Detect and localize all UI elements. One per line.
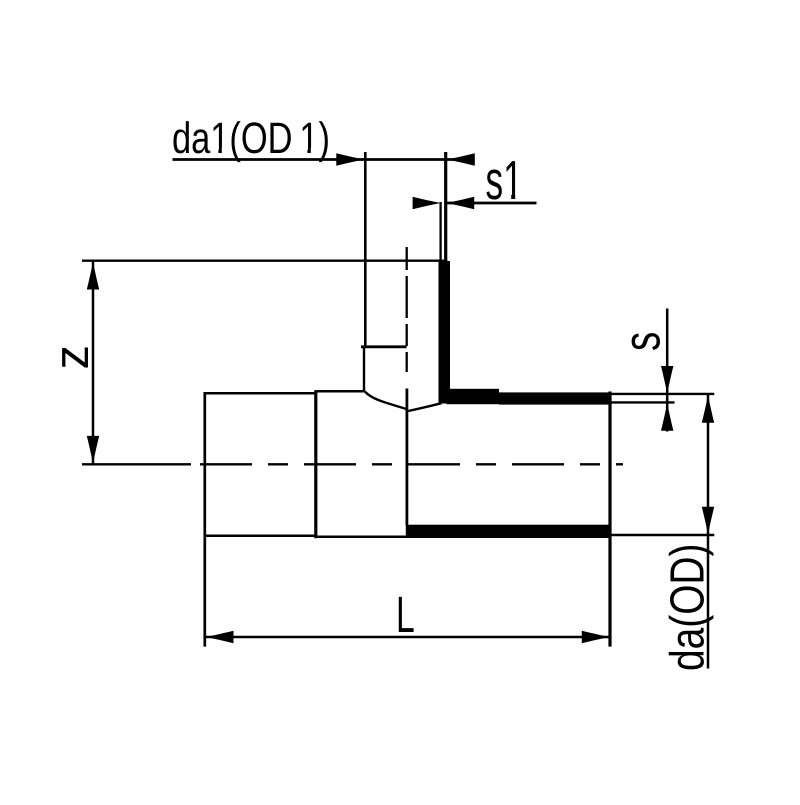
s dimension line (666, 309, 669, 432)
L dimension line (205, 636, 610, 639)
svg-text:z: z (45, 345, 99, 370)
svg-text:s1: s1 (486, 149, 523, 211)
main body bottom edge (316, 536, 610, 539)
white cover: remove foot serif of second 1 in da1(OD1) (300, 148, 307, 154)
branch right inner wall line (439, 202, 441, 261)
branch right outer edge / da1+s1 extension (444, 152, 447, 261)
da1 left arrow (336, 153, 364, 165)
saddle left curve (365, 392, 405, 409)
dimension s (612, 309, 715, 432)
svg-text:da(OD): da(OD) (662, 544, 715, 671)
dimension da(OD) (612, 395, 715, 671)
branch dashed centerline (406, 247, 408, 372)
branch left edge lower part (363, 347, 365, 392)
s upper arrow (661, 366, 673, 394)
branch left outer edge / da1 extension (364, 152, 367, 347)
da1 right arrow (447, 153, 475, 165)
saddle center vertical line (405, 389, 408, 526)
da bottom extension line (612, 534, 715, 536)
dimension z (45, 261, 99, 464)
fusion coil bar on branch right (439, 261, 451, 404)
left spigot top edge (204, 392, 317, 395)
svg-text:s: s (614, 332, 672, 351)
horizontal centerline solid start / z bottom extension (82, 463, 191, 465)
dimension da1(OD1) (172, 114, 475, 166)
branch outlet (82, 152, 447, 526)
s1 right arrow (446, 197, 474, 209)
da bottom arrow (702, 507, 714, 535)
s lower arrow (661, 403, 673, 431)
fusion coil bar top raised segment (447, 389, 500, 404)
horizontal dash-dot centerline (200, 463, 623, 465)
da top arrow (702, 395, 714, 423)
white cover: remove foot serif of first 1 in da1(OD1) (211, 148, 218, 154)
s outer top extension line (612, 393, 715, 395)
left spigot bottom edge (204, 535, 317, 538)
s1 left arrow (413, 197, 441, 209)
svg-text:L: L (396, 586, 415, 643)
saddle right curve (408, 403, 441, 411)
main body right edge (608, 392, 611, 647)
z bottom arrow (87, 436, 99, 464)
z dimension line (92, 261, 95, 464)
dimension L (205, 586, 610, 643)
svg-text:da1(OD 1): da1(OD 1) (172, 114, 330, 163)
white cover: remove foot serif of 1 in s1 (505, 194, 512, 199)
z top arrow (87, 262, 99, 290)
branch mouth line and z top extension (82, 260, 447, 262)
left spigot left edge (203, 392, 206, 646)
da1 dimension line (173, 158, 475, 161)
L left arrow (206, 631, 234, 643)
fusion coil bar bottom (406, 525, 609, 536)
L right arrow (582, 631, 610, 643)
dimension s1 (413, 149, 537, 211)
body separation line (314, 390, 317, 538)
fusion coil bar top main segment (499, 392, 609, 404)
tee body: left spigot outline (204, 390, 611, 646)
branch socket shoulder line (361, 345, 407, 348)
s1 dimension line right part (446, 202, 536, 205)
da dimension line (707, 395, 710, 669)
main body top edge (316, 390, 366, 393)
s inner top extension line (612, 401, 675, 403)
